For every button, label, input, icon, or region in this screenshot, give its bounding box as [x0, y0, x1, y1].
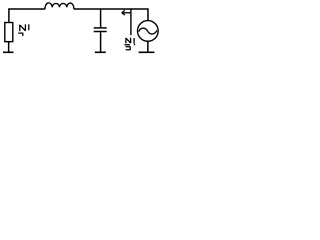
inductor L (4 humps) — [45, 3, 74, 9]
label Z_in: i glyph stem — [124, 44, 130, 46]
AC source (circle with sine) — [138, 21, 159, 42]
label Z_in (rotated): Z glyph — [126, 38, 131, 44]
capacitor C: bottom lead — [100, 32, 102, 52]
label Z at load: overbar stroke — [28, 24, 30, 30]
label Z_in: n glyph — [126, 47, 131, 50]
input impedance arrow: horizontal shaft — [122, 12, 131, 14]
ground under box — [3, 51, 14, 53]
wire: top rail right segment with corner down to source — [74, 9, 148, 21]
ground under source — [139, 51, 155, 53]
label Z_in: i glyph dot — [134, 44, 135, 45]
label Z at load: subscript glyph — [18, 33, 23, 36]
input impedance arrow: head pointing left — [122, 10, 125, 15]
impedance box (load) — [5, 23, 13, 42]
capacitor C: top lead — [100, 9, 102, 27]
label Z (rotated) at load: Z glyph — [20, 24, 26, 31]
label Z_in: overbar stroke — [133, 38, 135, 44]
input impedance arrow: vertical tail — [130, 9, 132, 35]
wire: top rail left segment — [8, 8, 45, 10]
background — [0, 0, 169, 60]
capacitor C: plates — [94, 27, 107, 29]
sine symbol inside source — [139, 28, 157, 34]
wire: source bottom lead — [147, 41, 149, 52]
wire: box bottom lead — [8, 42, 10, 53]
ground under capacitor — [95, 51, 106, 53]
wire: box top to top rail — [8, 9, 10, 23]
